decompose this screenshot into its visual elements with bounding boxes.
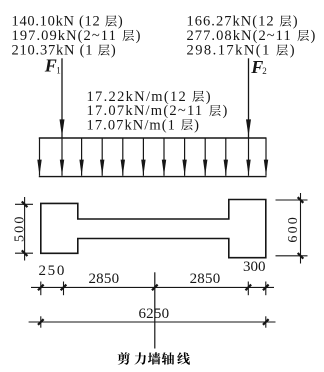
svg-text:1: 1 [56, 65, 61, 75]
svg-text:): ) [136, 28, 141, 44]
svg-text:300: 300 [243, 259, 266, 275]
svg-text:): ) [206, 89, 211, 105]
svg-text:): ) [118, 14, 123, 30]
svg-text:): ) [310, 28, 315, 44]
svg-text:2850: 2850 [88, 271, 119, 287]
svg-text:2: 2 [262, 66, 267, 76]
svg-text:): ) [222, 103, 227, 119]
svg-text:6250: 6250 [138, 306, 169, 322]
svg-text:500: 500 [12, 214, 27, 242]
svg-text:600: 600 [286, 215, 301, 243]
svg-text:17.07kN/m(1: 17.07kN/m(1 [87, 117, 177, 133]
svg-text:): ) [194, 117, 199, 133]
svg-text:250: 250 [38, 263, 66, 279]
svg-text:): ) [111, 43, 116, 59]
svg-text:2850: 2850 [190, 271, 221, 287]
svg-text:): ) [290, 43, 295, 59]
svg-text:F: F [44, 56, 57, 76]
svg-text:): ) [293, 14, 298, 30]
